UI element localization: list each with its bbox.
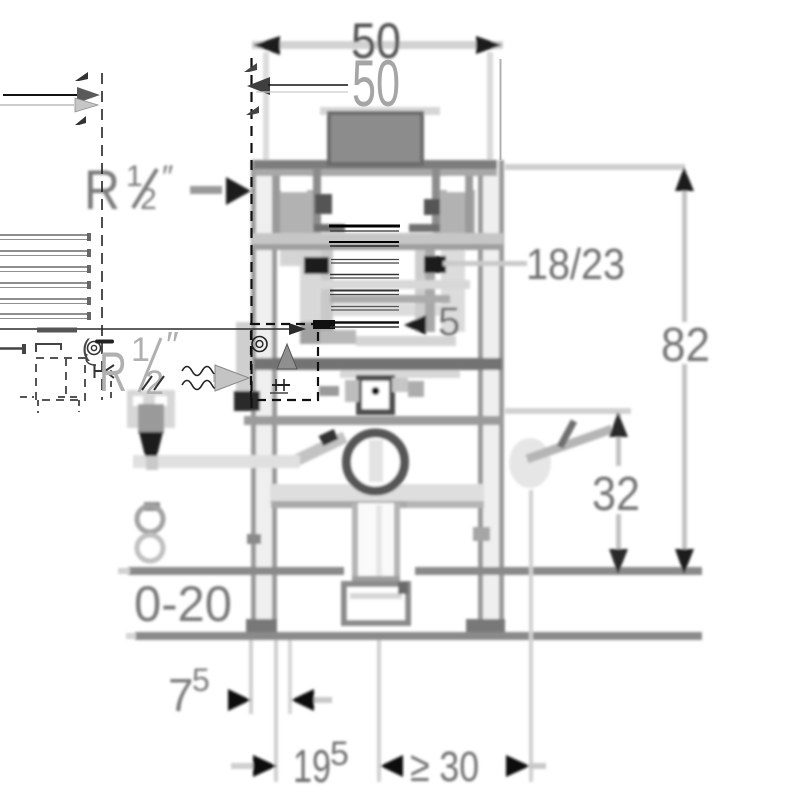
svg-text:0-20: 0-20	[134, 576, 232, 632]
valve handle	[97, 340, 112, 344]
dimension 32 line lower	[616, 514, 621, 566]
left ear horizontal	[314, 224, 345, 232]
diagonal bend dark piece	[321, 434, 336, 441]
flush thread line 5b	[330, 294, 399, 296]
left rail inner line	[272, 160, 277, 636]
supply wall hatch rung5	[0, 298, 88, 300]
dim ge30 right arrow	[506, 755, 530, 777]
shelf line right	[407, 501, 484, 508]
valve hook	[86, 354, 96, 365]
right rail inner line	[478, 160, 483, 636]
label 5 arrow	[404, 315, 426, 335]
flush thread line 4b	[330, 277, 399, 279]
dimension 82 line lower	[682, 364, 687, 566]
flush thread line 2	[329, 241, 399, 243]
right rail fill	[483, 160, 499, 636]
svg-text:2: 2	[140, 183, 157, 216]
cistern right band dark	[425, 250, 435, 332]
svg-text:5: 5	[330, 735, 349, 773]
dashed x111	[110, 370, 112, 400]
raw floor stub	[126, 633, 136, 639]
connection circle inner	[256, 341, 263, 348]
left rail outer line	[251, 160, 256, 636]
extension line x250	[249, 640, 253, 714]
drain pipe right edge	[394, 503, 400, 579]
left rail fill	[256, 160, 272, 636]
connection cross v2	[283, 379, 285, 391]
break mark lower	[75, 116, 86, 125]
left rail clamp	[247, 534, 261, 544]
svg-text:18/23: 18/23	[526, 240, 625, 289]
dimension 50 left arrow	[253, 36, 280, 55]
elbow flank right2	[408, 381, 424, 397]
left ear white pocket	[281, 176, 307, 192]
connection wedge	[319, 386, 339, 396]
wall anchor plate	[509, 438, 551, 488]
screw tail	[146, 456, 158, 470]
supply wall hatch rung4	[0, 282, 88, 284]
wall arrow 2 line	[0, 104, 74, 106]
shelf line left	[271, 501, 407, 508]
valve tee bar	[94, 365, 96, 378]
svg-text:″: ″	[162, 159, 173, 195]
dim 7.5 right tail	[314, 697, 332, 703]
wall arrow 1 line	[3, 94, 79, 96]
flush thread line 6	[331, 306, 399, 308]
supply wall hatch rung1	[0, 235, 88, 319]
left ear inner bar	[313, 168, 321, 232]
connection area block mid	[320, 330, 356, 344]
connection circle outer	[252, 337, 267, 352]
screw plate	[127, 390, 175, 428]
flush thread line 4	[330, 274, 399, 276]
break mark upper	[75, 72, 88, 81]
sharp 50 leader arrow	[247, 77, 270, 95]
right ear inner bar	[432, 168, 440, 232]
extension line x290	[288, 640, 292, 714]
dimension 50 line	[252, 41, 503, 49]
dimension 32 bottom arrow	[609, 549, 628, 574]
right ear chunk	[433, 190, 475, 250]
right ear dark square	[424, 199, 440, 215]
dim 7.5 left arrow	[228, 689, 251, 711]
valve dashed divider	[65, 358, 67, 400]
extension line x531	[529, 490, 533, 782]
right extension thin line	[500, 59, 502, 160]
svg-text:R: R	[99, 340, 127, 403]
socket dark corner	[398, 582, 408, 594]
right bolt	[424, 256, 446, 273]
cistern bottom dark band	[254, 358, 502, 370]
pixel R half arrow tail	[190, 186, 222, 194]
finished floor line left	[128, 567, 344, 575]
valve dashed stub left	[20, 396, 34, 398]
flush thread line 5	[330, 290, 399, 292]
right ear outer bar	[465, 176, 473, 248]
svg-text:32: 32	[592, 468, 640, 521]
top crossbar dark	[254, 160, 497, 169]
connection area dark blob	[234, 391, 260, 411]
top dark box	[329, 113, 422, 164]
top crossbar light	[254, 169, 497, 176]
cistern band y310	[330, 304, 450, 316]
ring stack lower	[137, 535, 163, 561]
dashed centre line x251	[250, 58, 252, 412]
elbow flank left	[345, 380, 359, 402]
sharp half slash	[139, 338, 161, 392]
raw floor line	[135, 632, 702, 640]
flush elbow box	[359, 378, 392, 412]
valve dashed box	[36, 358, 85, 400]
supply wall hatch rung3	[0, 266, 88, 268]
leader to 18/23	[443, 261, 527, 266]
valve circle inner	[91, 345, 96, 350]
wavy arrow head	[215, 365, 249, 391]
cistern body light right	[441, 250, 465, 332]
valve dashed stub down2	[78, 400, 80, 412]
valve bracket top	[36, 344, 61, 352]
wall anchor rod	[527, 429, 612, 459]
light band y460	[133, 455, 300, 468]
drain pipe left edge	[352, 503, 358, 579]
finished floor stub	[118, 568, 130, 574]
connection area block left	[236, 322, 252, 410]
flush thread line 3	[331, 259, 399, 261]
screw tip dark	[139, 432, 163, 456]
pixel half slash	[133, 169, 157, 208]
dim ge30 right tail	[530, 763, 546, 769]
elbow flank right	[392, 378, 408, 392]
dashed centre line x102	[101, 73, 103, 400]
drain circle	[347, 433, 405, 491]
cistern band y336	[356, 336, 456, 346]
right ear white pocket	[447, 176, 473, 192]
drain pipe fill	[358, 503, 394, 579]
valve dashed stub down1	[37, 400, 39, 413]
dimension 82 extension line	[505, 164, 685, 170]
pixel R half arrow head	[226, 177, 251, 205]
left ear dark square	[315, 194, 332, 214]
connection mark	[270, 392, 288, 394]
dim 19.5 right arrow	[380, 755, 403, 777]
socket divider	[350, 593, 402, 599]
flush thread line 6b	[331, 309, 399, 311]
supply pipe thick segment	[37, 328, 77, 333]
band y298	[330, 295, 450, 303]
svg-text:5: 5	[192, 662, 210, 698]
left bolt	[304, 257, 329, 274]
dimension 32 extension line	[505, 408, 631, 414]
drain circle inner shade	[369, 440, 383, 482]
screw plate hole1	[133, 396, 143, 406]
wall arrow 1 head	[77, 87, 100, 103]
break mark lower x246	[246, 106, 259, 115]
right rail outer line	[499, 160, 504, 636]
top dim extension right	[487, 52, 493, 162]
dimension 82 bottom arrow	[675, 549, 694, 574]
valve tee	[94, 370, 106, 372]
ring stack upper	[137, 506, 163, 532]
svg-text:″: ″	[166, 324, 179, 365]
dimension 82 top arrow	[675, 167, 694, 191]
flush elbow dot	[372, 387, 380, 395]
flush thread line 3b	[331, 262, 399, 264]
dimension 50 right arrow	[476, 36, 502, 54]
connection cross h	[272, 384, 290, 386]
crossbar2 light band	[252, 233, 503, 244]
flush thread cap	[313, 320, 335, 329]
left ear chunk	[279, 190, 321, 250]
flush thread line 7	[329, 321, 399, 324]
left foot	[246, 619, 277, 636]
connection cross v1	[275, 379, 277, 391]
svg-text:7: 7	[168, 669, 194, 721]
wavy line 1	[182, 367, 223, 376]
left ear outer bar	[272, 176, 280, 248]
supply wall hatch rung6	[0, 313, 88, 315]
diagonal bend pipe	[297, 437, 345, 460]
cistern right band light	[415, 250, 425, 332]
top box light cap	[320, 107, 440, 115]
wall arrow 2 head	[75, 98, 98, 112]
flush thread line 1	[329, 225, 400, 228]
center axis line lower	[377, 640, 381, 782]
supply pipe lower cap	[22, 344, 26, 354]
screw plate hole2	[155, 396, 167, 406]
dimension 32 top arrow	[609, 412, 628, 437]
ring stack cap	[144, 502, 160, 511]
svg-text:5: 5	[438, 300, 460, 344]
flush thread line 7b	[330, 326, 399, 328]
socket collar	[352, 576, 400, 584]
cistern body light left	[280, 250, 322, 266]
svg-text:50: 50	[352, 46, 400, 120]
sharp 50 leader line 2	[256, 91, 348, 93]
rail band y420	[244, 416, 504, 425]
drain pipe axis	[376, 505, 382, 577]
svg-text:19: 19	[293, 740, 331, 792]
top dim extension left	[263, 52, 269, 162]
valve fork	[105, 365, 114, 378]
wavy arrow bar	[213, 374, 235, 382]
right foot	[466, 619, 505, 636]
crossbar2 line	[252, 244, 503, 250]
finished floor line right	[415, 567, 702, 575]
cistern left band	[321, 250, 333, 332]
sharp 50 leader line	[268, 84, 348, 86]
dim 19.5 left arrow	[253, 755, 277, 777]
svg-text:≥ 30: ≥ 30	[410, 743, 479, 791]
wavy line 2	[182, 381, 223, 390]
cistern band y374	[340, 370, 460, 378]
drain socket box	[344, 584, 408, 623]
flush thread line 2b	[330, 245, 399, 247]
band y282	[300, 280, 470, 289]
valve circle outer	[88, 342, 101, 355]
screw body	[138, 404, 164, 434]
wall anchor dark hatch	[560, 421, 574, 447]
cistern body light left2	[300, 266, 322, 332]
svg-text:82: 82	[661, 319, 710, 372]
supply pipe leader line	[0, 328, 296, 330]
dim 19.5 left tail	[231, 763, 253, 769]
supply pipe lower line	[0, 347, 23, 350]
extension line x276	[274, 640, 278, 782]
dimension 82 line upper	[682, 170, 687, 322]
shelf band	[270, 484, 484, 503]
connection dashed box	[251, 324, 318, 400]
hatch end caps	[87, 233, 91, 320]
screw sharp hatch 2	[154, 376, 164, 390]
flush thread line 1b	[330, 230, 399, 232]
supply leader arrow head	[289, 323, 306, 335]
break mark upper x246	[244, 63, 257, 72]
valve dashed stub bottom	[58, 396, 79, 398]
connection area block top	[300, 322, 334, 344]
right ear horizontal	[409, 224, 440, 232]
supply wall hatch rung2	[0, 250, 88, 252]
dimension 32 line upper	[616, 414, 621, 466]
connection triangle	[277, 344, 297, 369]
screw sharp hatch 1	[142, 376, 152, 390]
dim 7.5 right arrow	[291, 689, 314, 711]
right rail clamp	[473, 527, 490, 541]
